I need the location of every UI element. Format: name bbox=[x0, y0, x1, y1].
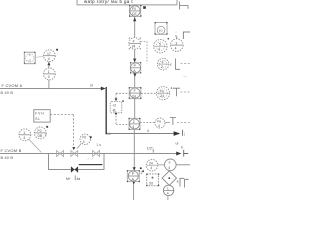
svg-text:st: st bbox=[90, 84, 93, 88]
svg-text:S L: S L bbox=[35, 117, 40, 121]
svg-text:1/2": 1/2" bbox=[147, 147, 154, 151]
svg-text:2: 2 bbox=[141, 171, 143, 175]
svg-text:x: x bbox=[170, 62, 172, 66]
svg-text:24: 24 bbox=[149, 161, 153, 165]
svg-text:24: 24 bbox=[132, 94, 136, 98]
svg-text:2: 2 bbox=[133, 120, 135, 124]
svg-text:DB: DB bbox=[38, 134, 43, 138]
svg-text:Fe: Fe bbox=[157, 119, 161, 123]
svg-text:F CVOM 8: F CVOM 8 bbox=[2, 83, 23, 88]
svg-text:4: 4 bbox=[83, 140, 85, 144]
svg-text:4: 4 bbox=[168, 166, 170, 170]
svg-text:F: F bbox=[134, 89, 136, 93]
svg-text:Fe: Fe bbox=[160, 89, 164, 93]
svg-text:4: 4 bbox=[48, 75, 50, 79]
svg-text:4: 4 bbox=[158, 47, 160, 51]
svg-text:F0: F0 bbox=[38, 129, 42, 133]
svg-text:1: 1 bbox=[48, 70, 50, 74]
svg-text:h: h bbox=[181, 146, 183, 150]
svg-text:F0: F0 bbox=[82, 136, 86, 140]
svg-text:M+: M+ bbox=[66, 177, 71, 181]
svg-text:x . x: x . x bbox=[88, 157, 94, 161]
svg-text:5: 5 bbox=[159, 42, 161, 46]
svg-text:B 40 B: B 40 B bbox=[1, 91, 14, 95]
svg-text:F: F bbox=[169, 161, 171, 165]
svg-text:F: F bbox=[133, 40, 135, 44]
svg-text:4: 4 bbox=[48, 57, 50, 61]
svg-text:F0: F0 bbox=[132, 7, 136, 11]
svg-text:3O: 3O bbox=[159, 29, 164, 33]
svg-text:4a: 4a bbox=[77, 177, 81, 181]
svg-text:watp rotry/ lau b ga t: watp rotry/ lau b ga t bbox=[84, 0, 133, 4]
svg-text:4: 4 bbox=[167, 192, 169, 196]
svg-text:F V H: F V H bbox=[35, 112, 44, 116]
svg-text:1: 1 bbox=[23, 131, 25, 135]
svg-text:F: F bbox=[162, 60, 164, 64]
svg-text:4: 4 bbox=[132, 125, 134, 129]
svg-text:3: 3 bbox=[175, 41, 177, 45]
svg-text:4: 4 bbox=[147, 129, 149, 133]
svg-text:F CVOM B: F CVOM B bbox=[1, 148, 22, 153]
svg-text:17: 17 bbox=[47, 52, 51, 56]
svg-text:24: 24 bbox=[160, 94, 164, 98]
svg-text:1 s: 1 s bbox=[97, 143, 102, 147]
svg-text:24: 24 bbox=[132, 45, 136, 49]
svg-text:2: 2 bbox=[161, 65, 163, 69]
svg-text:~o: ~o bbox=[27, 59, 31, 63]
svg-text:4: 4 bbox=[158, 124, 160, 128]
svg-text:a: a bbox=[177, 180, 179, 184]
svg-text:+2: +2 bbox=[112, 104, 116, 108]
svg-text:8L: 8L bbox=[113, 109, 117, 113]
svg-text:4: 4 bbox=[23, 136, 25, 140]
svg-text:B 40 B: B 40 B bbox=[1, 156, 14, 160]
svg-text:L: L bbox=[167, 187, 169, 191]
svg-text:4: 4 bbox=[175, 46, 177, 50]
svg-text:CE: CE bbox=[132, 12, 137, 16]
svg-text:4: 4 bbox=[150, 166, 152, 170]
svg-text:5d: 5d bbox=[149, 182, 153, 186]
